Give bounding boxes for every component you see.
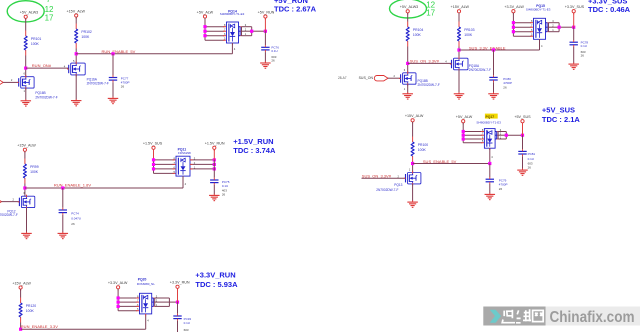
wire PQ16A source to ground	[75, 75, 77, 100]
wire	[25, 18, 27, 30]
capacitor PC81 0.1U	[518, 149, 535, 169]
wire	[412, 162, 414, 173]
wire +5V_ALW bus	[462, 123, 464, 143]
svg-text:+3.3V_RUN: +3.3V_RUN	[170, 281, 190, 285]
svg-text:RUN_ENABLE_3.3V: RUN_ENABLE_3.3V	[21, 324, 58, 329]
wire	[24, 184, 26, 197]
svg-text:26: 26	[528, 166, 532, 170]
ground under PC79	[485, 193, 496, 200]
junction	[117, 305, 120, 308]
wire	[407, 47, 409, 73]
label PQ11	[178, 148, 191, 155]
svg-text:+15V_ALW: +15V_ALW	[451, 5, 470, 9]
junction	[572, 26, 575, 29]
label PQ20	[137, 277, 156, 286]
wire PC75 to ground	[213, 185, 215, 194]
ground under PC81	[517, 168, 528, 175]
title +5V_SUS TDC	[542, 106, 581, 124]
svg-text:+5V_ALW3: +5V_ALW3	[400, 5, 418, 9]
svg-text:PR100: PR100	[418, 143, 428, 147]
svg-text:PQ13: PQ13	[394, 183, 402, 187]
wire PQ14 drain pins to +5V_RUN	[239, 27, 266, 36]
junction	[505, 134, 508, 137]
label PQ16A 2N7002DW-7-F	[87, 77, 109, 85]
svg-text:TDC : 5.93A: TDC : 5.93A	[195, 280, 238, 289]
svg-text:SUS_ON_3.3V#: SUS_ON_3.3V#	[362, 173, 392, 178]
resistor PR99 100K	[23, 159, 38, 184]
power flag +5V_ALW3	[20, 11, 38, 20]
svg-text:0.1U: 0.1U	[581, 44, 587, 48]
wire	[75, 17, 77, 23]
svg-text:2N7002DW-7-F: 2N7002DW-7-F	[87, 82, 109, 86]
transistor PQ12 2N7002DW-7-F	[18, 195, 35, 209]
junction	[152, 163, 155, 166]
svg-text:26: 26	[499, 187, 503, 191]
wire +3.3V_SUS bus	[573, 13, 575, 27]
label PQ18B 2N7002DW-7-F	[418, 79, 440, 87]
svg-text:PR101: PR101	[31, 37, 41, 41]
junction	[462, 137, 465, 140]
node SUS_ENABLE_5V	[411, 162, 414, 165]
svg-text:RUN_ENABLE_1.8V: RUN_ENABLE_1.8V	[54, 183, 91, 188]
wire +3.3V_ALW bus	[512, 13, 514, 36]
resistor PR103 100K	[458, 22, 475, 47]
junction PC80	[492, 48, 495, 51]
svg-text:26: 26	[71, 222, 75, 226]
svg-text:+3.3V_ALW: +3.3V_ALW	[504, 5, 524, 9]
transistor PQ16B 2N7002DW-7-F	[17, 75, 34, 89]
svg-text:26: 26	[271, 59, 275, 63]
svg-text:26: 26	[503, 85, 507, 89]
svg-text:100K: 100K	[418, 148, 427, 152]
power flag +5V_RUN	[258, 10, 275, 19]
wire to PC74	[62, 188, 64, 208]
svg-text:+5V_SUS: +5V_SUS	[542, 106, 575, 115]
junction	[203, 25, 206, 28]
svg-text:TDC : 2.1A: TDC : 2.1A	[542, 115, 581, 124]
power flag +5V_ALW (PQ17)	[456, 115, 473, 124]
power mosfet PQ17 SI4800BDY-T1-E3	[484, 129, 495, 150]
wire RUN_ENABLE_3.3V	[21, 328, 146, 330]
junction	[203, 34, 206, 37]
wire PQ15 drain pins to +3.3V_SUS	[546, 23, 574, 32]
transistor PQ18A 2N7002DW-7-F	[450, 57, 468, 72]
wire PQ20 gate	[145, 314, 147, 329]
svg-text:17: 17	[45, 14, 54, 23]
wire PQ20 drain pins to +3.3V_RUN	[152, 298, 178, 306]
label PQ17 (yellow highlight)	[485, 114, 498, 119]
node RUN_ENABLE_3.3V	[19, 328, 22, 331]
wire	[25, 56, 27, 77]
svg-text:+1.5V_RUN: +1.5V_RUN	[205, 142, 225, 146]
svg-text:100K: 100K	[464, 33, 473, 37]
junction	[512, 30, 515, 33]
power mosfet PQ20 FDS6680_NL	[140, 293, 152, 315]
junction PC79	[488, 162, 491, 165]
junction	[213, 158, 216, 161]
power flag +15V_ALW	[66, 9, 85, 18]
svg-text:12: 12	[45, 5, 54, 14]
svg-text:2N7002DW-7-F: 2N7002DW-7-F	[0, 213, 18, 217]
power mosfet PQ15 SI4800BDY-T1-E3	[534, 18, 546, 41]
pin numbers 8 7 6 5 of PQ14	[224, 23, 226, 41]
wire PQ16B source to ground	[25, 88, 27, 100]
label PQ12 2N7002DW-7-F	[0, 209, 18, 217]
ground under PQ12	[21, 232, 32, 239]
wire	[458, 47, 460, 59]
svg-text:Chinafix.com: Chinafix.com	[550, 309, 635, 326]
pin numbers 8 7 6 5 of PQ17	[482, 128, 484, 143]
wire PC78 to ground	[573, 47, 575, 63]
ground under PQ16B	[21, 99, 32, 106]
ground under PC74	[58, 232, 69, 239]
wire to PC79	[489, 164, 491, 178]
junction PC74	[61, 186, 64, 189]
input connector (clipped) to PQ16B gate	[0, 80, 3, 85]
power flag +3.3V_SUS	[565, 5, 585, 14]
svg-text:TDC : 0.46A: TDC : 0.46A	[588, 5, 631, 14]
svg-text:+15V_ALW: +15V_ALW	[66, 9, 85, 13]
svg-text:2N7002DW-7-F: 2N7002DW-7-F	[469, 68, 491, 72]
svg-text:+5V_SUS: +5V_SUS	[514, 115, 531, 119]
wire	[20, 289, 22, 297]
power mosfet PQ14 SI4800BDY-T1-E3	[227, 22, 239, 45]
wire +1.5V_SUS bus	[153, 149, 155, 160]
svg-text:2N7002DW-7-F: 2N7002DW-7-F	[35, 95, 57, 99]
transistor PQ16A 2N7002DW-7-F	[67, 62, 85, 77]
svg-text:26: 26	[121, 85, 125, 89]
svg-text:26: 26	[581, 54, 585, 58]
wire PQ11 gate	[182, 176, 184, 188]
resistor PR120 100K	[19, 298, 36, 323]
svg-text:PC81: PC81	[528, 152, 536, 156]
svg-text:+5V_ALW: +5V_ALW	[456, 115, 473, 119]
power flag +15V_ALW (PR100)	[405, 114, 424, 123]
junction	[521, 134, 524, 137]
wire	[75, 49, 77, 64]
wire PQ13 source to ground	[412, 184, 414, 201]
node RUN_ON#	[24, 67, 27, 70]
ground under PQ13	[407, 200, 418, 207]
wire PC79 to ground	[489, 184, 491, 193]
wire	[458, 13, 460, 22]
pin numbers 8 7 6 5 of PQ20	[137, 294, 139, 311]
wire PQ18A source to ground	[458, 70, 460, 93]
green annotation numbers 12 17	[426, 0, 435, 17]
label PQ14	[220, 10, 245, 17]
junction	[558, 26, 561, 29]
wire PC80 to ground	[493, 82, 495, 92]
wire	[20, 323, 22, 330]
power flag +15V_ALW right	[451, 5, 470, 14]
svg-text:PR99: PR99	[30, 165, 39, 169]
wire stubs to PQ15 pins	[513, 23, 533, 37]
capacitor PC80 4700P	[489, 75, 512, 89]
label PQ16B 2N7002DW-7-F	[35, 91, 57, 99]
capacitor PC76 0.1U	[261, 45, 279, 63]
wire +3.3V_RUN bus	[177, 288, 179, 302]
junction	[250, 30, 253, 33]
capacitor PC78 0.1U	[570, 40, 589, 58]
capacitor PC77 4700P	[109, 75, 130, 88]
wire	[412, 122, 414, 137]
svg-text:PQ20: PQ20	[138, 277, 147, 281]
wire RUN_ON# to PQ16A gate	[26, 67, 69, 69]
capacitor PC74 0.047U	[59, 208, 81, 226]
svg-text:PQ17: PQ17	[485, 115, 494, 119]
title +3.3V_SUS TDC	[588, 0, 631, 14]
wire PQ17 gate	[489, 148, 491, 163]
wire to PC77	[112, 54, 114, 78]
ground under PC80	[488, 92, 499, 99]
resistor PR101 100K	[24, 31, 41, 56]
svg-text:+5V_ALW: +5V_ALW	[197, 10, 214, 14]
power flag +15V_ALW (bottom)	[12, 281, 31, 290]
svg-text:SI4800BDY-T1-E3: SI4800BDY-T1-E3	[526, 8, 551, 12]
svg-text:2N7002DW-7-F: 2N7002DW-7-F	[418, 83, 440, 87]
svg-text:SI4800BDY-T1-E3: SI4800BDY-T1-E3	[476, 121, 501, 125]
wire PC81 to ground	[522, 156, 524, 169]
watermark chinafix logo	[483, 307, 640, 326]
wire PQ14 gate	[231, 43, 233, 54]
wire stubs to PQ14 pins 8 7 6 5	[205, 27, 226, 41]
junction PC77	[111, 52, 114, 55]
wire stubs to PQ11 pins	[154, 160, 176, 174]
svg-text:+5V_ALW3: +5V_ALW3	[20, 11, 38, 15]
wire stubs to PQ17 pins	[463, 132, 484, 143]
junction	[462, 130, 465, 133]
wire PQ17 drain pins to +5V_SUS	[495, 132, 522, 140]
input connector SUS_ON	[374, 75, 388, 80]
junction	[152, 158, 155, 161]
power flag +5V_ALW3 right	[400, 5, 418, 14]
wire PC93 (clipped)	[177, 321, 179, 332]
title +3.3V_RUN TDC	[195, 270, 238, 288]
pin numbers 8 7 6 5 of PQ15	[531, 19, 533, 37]
svg-text:PR120: PR120	[26, 304, 36, 308]
wire stubs to PQ20 pins	[118, 298, 139, 311]
svg-text:100K: 100K	[30, 170, 39, 174]
ground under PC76	[260, 61, 271, 68]
pin numbers 8 7 6 5 of PQ11	[173, 156, 175, 174]
ground under PQ18A	[454, 92, 465, 99]
capacitor PC75 0.1U	[210, 178, 230, 197]
svg-text:+3.3V_SUS: +3.3V_SUS	[565, 5, 585, 9]
svg-text:26: 26	[222, 192, 226, 196]
wire PC74 to ground	[62, 215, 64, 232]
wire +1.5V_RUN bus	[213, 149, 215, 160]
svg-text:PR103: PR103	[464, 28, 474, 32]
capacitor PC93 0.1U	[173, 314, 191, 332]
wire gate PQ12	[2, 201, 20, 203]
svg-text:+3.3V_RUN: +3.3V_RUN	[195, 270, 235, 279]
label PQ15	[526, 4, 551, 12]
node SUS_3.3V_ENABLE	[457, 48, 460, 51]
node SUS_ON_3.3V#	[406, 62, 409, 65]
wire SUS_ENABLE_5V	[413, 163, 490, 165]
svg-text:100K: 100K	[81, 35, 90, 39]
green annotation numbers 7 12 17	[45, 0, 54, 23]
svg-text:PR104: PR104	[413, 28, 423, 32]
junction	[176, 301, 179, 304]
wire PQ15 gate	[539, 39, 541, 50]
label PQ13 2N7002DW-7-F	[376, 183, 402, 192]
title +1.5V_RUN TDC	[233, 137, 276, 155]
svg-text:28-A7: 28-A7	[338, 76, 347, 80]
label PQ18A 2N7002DW-7-F	[469, 64, 491, 72]
wire RUN_ENABLE_5V	[76, 53, 232, 55]
pin numbers 3 2 1 of PQ11	[194, 156, 196, 169]
ground under PC77	[108, 97, 119, 104]
wire stubs PQ11 drain pins to +1.5V_RUN bus	[190, 160, 214, 169]
svg-text:+3.3V_ALW: +3.3V_ALW	[108, 281, 128, 285]
power flag +1.5V_RUN	[205, 142, 225, 151]
power flag +3.3V_ALW	[504, 5, 524, 14]
wire SUS_ON to PQ18B gate	[388, 77, 401, 79]
ground under PQ18B	[402, 92, 413, 99]
pin numbers 3 2 1 of PQ20	[156, 294, 158, 306]
ground under PC78	[568, 62, 579, 69]
svg-text:+5V_RUN: +5V_RUN	[258, 10, 275, 14]
resistor PR102 100K	[75, 24, 92, 49]
highlight ellipse around +5V_ALW3	[7, 1, 44, 22]
svg-text:FDS6680_NL: FDS6680_NL	[137, 282, 156, 286]
svg-text:TDC : 3.74A: TDC : 3.74A	[233, 146, 276, 155]
resistor PR104 100K	[406, 22, 423, 47]
svg-text:603: 603	[184, 328, 189, 332]
svg-text:RUN_ENABLE_5V: RUN_ENABLE_5V	[102, 49, 136, 54]
highlight ellipse around +5V_ALW3 (right)	[390, 0, 427, 18]
resistor PR100 100K	[411, 137, 428, 162]
svg-text:0.1U: 0.1U	[271, 49, 277, 53]
node RUN_ENABLE_5V	[75, 52, 78, 55]
svg-text:FDS6298: FDS6298	[178, 151, 191, 155]
wire gate PQ16B	[3, 81, 19, 83]
junction	[117, 301, 120, 304]
wire +5V_ALW bus	[204, 18, 206, 40]
wire PQ18B source to ground	[407, 84, 409, 92]
svg-text:100K: 100K	[26, 309, 35, 313]
pin numbers 3 2 1 of PQ14	[245, 23, 247, 36]
power flag +3.3V_RUN	[170, 281, 190, 290]
power flag +1.5V_SUS	[143, 142, 163, 151]
transistor PQ13 2N7002DW-7-F	[404, 171, 421, 185]
junction	[213, 167, 216, 170]
wire PC76 to ground	[264, 52, 266, 62]
svg-text:17: 17	[426, 9, 435, 18]
junction	[512, 26, 515, 29]
ground under PC75	[209, 194, 220, 201]
svg-text:7: 7	[46, 0, 51, 4]
junction	[462, 134, 465, 137]
power flag +15V_ALW (middle-left)	[17, 144, 36, 153]
watermark chinese characters	[502, 309, 543, 323]
junction	[512, 21, 515, 24]
junction	[264, 30, 267, 33]
svg-text:SI4800BDY-T1-E3: SI4800BDY-T1-E3	[220, 12, 245, 16]
wire +5V_SUS bus	[522, 123, 524, 135]
input connector (clipped) to PQ12 gate	[0, 199, 2, 204]
junction	[213, 163, 216, 166]
svg-text:0.1U: 0.1U	[222, 184, 228, 188]
wire to PC80	[493, 50, 495, 75]
svg-text:PC74: PC74	[71, 212, 79, 216]
svg-text:100K: 100K	[413, 33, 422, 37]
wire	[24, 151, 26, 158]
svg-text:100K: 100K	[31, 42, 40, 46]
svg-text:+15V_ALW: +15V_ALW	[17, 144, 36, 148]
wire	[407, 13, 409, 22]
node RUN_ENABLE_1.8V	[23, 186, 26, 189]
svg-text:0.1U: 0.1U	[184, 321, 190, 325]
wire SUS_3.3V_ENABLE	[459, 49, 540, 51]
capacitor PC79 4700P	[486, 177, 508, 191]
wire +5V_RUN bus	[264, 18, 266, 31]
wire SUS_ON_3.3V# to PQ13 gate	[362, 177, 406, 179]
svg-text:SUS_ON_3.3V#: SUS_ON_3.3V#	[410, 59, 440, 64]
wire RUN_ENABLE_1.8V	[25, 187, 183, 189]
svg-text:0.047U: 0.047U	[71, 217, 81, 221]
svg-text:+1.5V_SUS: +1.5V_SUS	[143, 142, 163, 146]
wire PQ12 source to ground	[26, 208, 28, 233]
junction	[117, 296, 120, 299]
wire SUS_ON to PQ18A gate	[408, 62, 452, 64]
svg-text:+15V_ALW: +15V_ALW	[12, 281, 31, 285]
svg-text:TDC : 2.67A: TDC : 2.67A	[274, 4, 317, 13]
power flag +5V_SUS	[514, 115, 531, 124]
junction	[152, 167, 155, 170]
svg-text:SUS_ON: SUS_ON	[359, 76, 374, 80]
power mosfet PQ11 FDS6298	[176, 156, 190, 178]
svg-text:+1.5V_RUN: +1.5V_RUN	[233, 137, 273, 146]
wire PC77 to ground	[112, 82, 114, 97]
pin numbers 3 2 1 of PQ17	[500, 128, 502, 140]
svg-text:PR102: PR102	[81, 30, 91, 34]
power flag +3.3V_ALW	[108, 281, 128, 290]
power flag +5V_ALW	[197, 10, 214, 19]
junction	[203, 30, 206, 33]
title +5V_RUN TDC	[274, 0, 317, 13]
transistor PQ18B 2N7002DW-7-F	[399, 71, 416, 85]
svg-text:2N7002DW-7-F: 2N7002DW-7-F	[376, 188, 398, 192]
svg-text:0.1U: 0.1U	[528, 157, 534, 161]
wire +3.3V_ALW bus	[117, 289, 119, 311]
pin numbers 3 2 1 of PQ15	[552, 19, 554, 32]
ground under PQ16A	[71, 99, 82, 106]
svg-text:+15V_ALW: +15V_ALW	[405, 114, 424, 118]
svg-text:RUN_ON#: RUN_ON#	[32, 63, 52, 68]
